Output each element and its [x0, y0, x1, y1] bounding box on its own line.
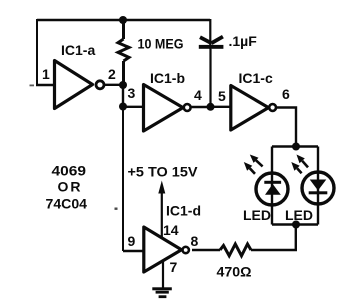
wire LED left branch [271, 147, 273, 225]
ground [152, 287, 172, 298]
svg-text:LED: LED [285, 207, 313, 223]
wire capacitor bottom lead [209, 49, 211, 107]
wire top rail [37, 19, 210, 21]
svg-text:470Ω: 470Ω [217, 264, 252, 280]
node top of LED box [292, 143, 300, 151]
svg-text:.1µF: .1µF [229, 33, 258, 49]
wire IC1-b output [191, 106, 211, 108]
wire IC1-a input [36, 84, 55, 86]
svg-text:OR: OR [58, 179, 83, 195]
wire LED right branch [317, 147, 319, 225]
LED D1 left [256, 173, 288, 205]
wire pin 7 to ground [162, 261, 164, 288]
svg-text:74C04: 74C04 [46, 196, 88, 212]
wire LED box top rail [272, 145, 318, 147]
svg-text:14: 14 [163, 222, 179, 238]
svg-text:5: 5 [218, 88, 226, 104]
stray dash left of pin1 [30, 85, 35, 87]
wire LED bottom to resistor [251, 225, 296, 251]
resistor R1 10 MEG [118, 20, 129, 85]
wire IC1-a output [104, 84, 123, 86]
svg-text:3: 3 [128, 85, 136, 101]
op-amp U1 inverter IC1-a [55, 61, 105, 109]
svg-text:9: 9 [128, 233, 136, 249]
capacitor C1 top lead wire [209, 19, 211, 49]
svg-text:1: 1 [42, 66, 50, 82]
svg-text:8: 8 [191, 233, 199, 249]
wire IC1-d input pin 9 [123, 250, 144, 252]
node bottom of LED box [292, 221, 300, 229]
wire power pin 14 with arrow [161, 193, 163, 238]
wire IC1-c output to LED rail [276, 108, 296, 148]
op-amp U1 inverter IC1-c [231, 86, 276, 131]
LED D1 light arrows [244, 155, 263, 174]
svg-text:+5 TO 15V: +5 TO 15V [128, 164, 199, 180]
svg-text:2: 2 [108, 66, 116, 82]
LED D2 right [302, 172, 334, 204]
svg-text:LED: LED [243, 207, 271, 223]
svg-text:4069: 4069 [52, 163, 87, 179]
node B pin3 junction [119, 103, 127, 111]
op-amp U1 inverter IC1-b [144, 85, 191, 132]
node A pin2 junction [119, 81, 127, 89]
node top junction [119, 16, 127, 24]
svg-text:IC1-d: IC1-d [166, 203, 201, 219]
svg-text:IC1-c: IC1-c [239, 70, 273, 86]
svg-text:10 MEG: 10 MEG [138, 36, 184, 52]
wire left feedback vertical [36, 19, 38, 85]
capacitor C1 .1uF [199, 37, 224, 49]
wire long vertical to pin 9 [122, 107, 124, 252]
wire node C to IC1-c input [211, 106, 232, 108]
svg-text:6: 6 [282, 86, 290, 102]
svg-text:4: 4 [194, 87, 202, 103]
svg-text:IC1-b: IC1-b [150, 70, 185, 86]
node C junction [207, 103, 215, 111]
wire LED box bottom rail [272, 223, 318, 225]
svg-text:IC1-a: IC1-a [61, 42, 95, 58]
svg-text:7: 7 [170, 259, 178, 275]
resistor R2 470ohm [192, 244, 251, 256]
wire IC1-b input [123, 106, 144, 108]
op-amp U1 inverter IC1-d [144, 227, 189, 272]
wire node A to node B [122, 85, 124, 107]
stray scan speck [115, 208, 118, 210]
LED D2 light arrows [291, 155, 308, 174]
